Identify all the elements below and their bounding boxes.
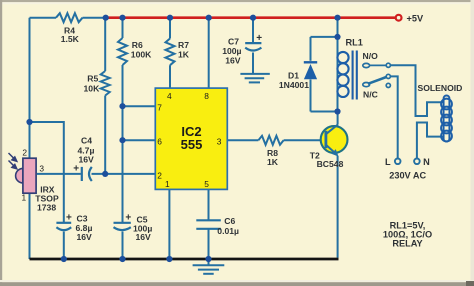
- junction R6 / pin 7: [119, 103, 125, 109]
- svg-text:1N4001: 1N4001: [279, 80, 309, 90]
- wire C7 to ground symbol: [252, 53, 254, 74]
- wire R8 to T2 base: [284, 139, 325, 141]
- junction ground rail at C5: [119, 256, 125, 262]
- junction on +5V rail at pin 8: [206, 15, 212, 21]
- resistor R6: [118, 38, 127, 65]
- resistor R4: [56, 13, 83, 22]
- node N/O contact point: [386, 63, 390, 67]
- wire relay pole to terminal L: [390, 76, 397, 158]
- svg-text:3: 3: [39, 163, 44, 173]
- svg-text:555: 555: [181, 137, 203, 152]
- svg-text:1.5K: 1.5K: [61, 34, 80, 44]
- svg-text:RL1: RL1: [346, 38, 363, 48]
- junction ground rail at C6: [205, 256, 211, 262]
- svg-text:L: L: [385, 157, 391, 167]
- wire rail to relay coil and collector node: [337, 18, 339, 112]
- wire N/O contact to solenoid top lead: [390, 65, 443, 116]
- wire junction to IC2 pin 7: [123, 105, 156, 107]
- svg-text:1: 1: [22, 192, 27, 202]
- wire rail to IC2 pin 8: [208, 18, 210, 88]
- wire C3 to ground rail: [63, 232, 65, 260]
- wire R6 bottom through pin7/pin6 junctions to C5: [122, 65, 124, 223]
- svg-text:+: +: [256, 33, 262, 44]
- capacitor C3: [56, 223, 71, 230]
- diode D1: [304, 64, 317, 79]
- transistor T2: [321, 126, 348, 153]
- wire rail to R5 top: [104, 18, 106, 71]
- svg-text:+5V: +5V: [407, 14, 424, 24]
- junction ground rail at C3: [61, 256, 67, 262]
- svg-text:4: 4: [167, 91, 172, 101]
- svg-text:2: 2: [157, 171, 162, 181]
- +5V red supply rail: [106, 16, 396, 19]
- svg-text:C7: C7: [228, 37, 239, 47]
- resistor R7: [166, 39, 175, 66]
- junction on +5V rail at C7: [250, 15, 256, 21]
- svg-text:+: +: [125, 213, 131, 224]
- IR input arrows: [9, 153, 17, 169]
- relay N/C fixed contact: [386, 83, 390, 87]
- svg-text:1738: 1738: [37, 202, 56, 212]
- svg-text:SOLENOID: SOLENOID: [418, 83, 463, 93]
- wire rail to C7: [252, 18, 254, 43]
- svg-text:1K: 1K: [178, 50, 190, 60]
- svg-text:C4: C4: [81, 135, 92, 145]
- wire sensor pin 3 to C4: [37, 173, 81, 175]
- svg-text:D1: D1: [288, 70, 299, 80]
- resistor R5: [101, 71, 110, 96]
- solenoid coil core: [444, 96, 450, 142]
- junction on +5V rail at R4/R5: [103, 15, 109, 21]
- wire D1 cathode vertical: [310, 37, 312, 61]
- svg-text:2: 2: [22, 148, 27, 158]
- svg-text:BC548: BC548: [317, 159, 344, 169]
- svg-text:16V: 16V: [77, 232, 93, 242]
- capacitor C6: [196, 220, 221, 229]
- wire sensor pin 1 to ground rail: [29, 193, 31, 259]
- svg-text:16V: 16V: [225, 56, 241, 66]
- timer IC2 555 body: [155, 88, 227, 189]
- ground below C6: [193, 265, 225, 274]
- svg-text:C3: C3: [77, 213, 88, 223]
- junction on +5V rail at R6: [119, 15, 125, 21]
- IR receiver IRX TSOP1738 body: [23, 158, 36, 193]
- wire N/O contact link: [370, 64, 387, 66]
- capacitor C7: [245, 43, 261, 50]
- junction sensor supply / C3: [26, 119, 32, 125]
- ground below C7: [240, 74, 269, 83]
- ground rail: [30, 258, 339, 261]
- diode D1 cathode bar: [304, 61, 317, 63]
- svg-text:RELAY: RELAY: [392, 239, 422, 249]
- resistor R8: [258, 136, 283, 145]
- +5V terminal: [396, 15, 402, 21]
- terminal L: [395, 159, 401, 165]
- wire junction to IC2 pin 6: [123, 139, 156, 141]
- wire solenoid bottom lead to terminal N: [417, 123, 443, 159]
- wire IC2 pin 5 to C6: [208, 189, 210, 220]
- relay RL1 coil: [337, 51, 356, 100]
- svg-text:5: 5: [204, 179, 209, 189]
- svg-text:1: 1: [165, 179, 170, 189]
- wire T2 emitter to ground rail: [337, 156, 339, 258]
- relay N/O fixed contact: [363, 63, 370, 67]
- svg-text:16V: 16V: [136, 232, 152, 242]
- wire IC2 pin 3 to R8: [227, 139, 258, 141]
- wire rail to R7 top: [169, 18, 171, 39]
- wire left vertical to sensor pin 2: [29, 18, 31, 159]
- junction on +5V rail at relay: [334, 15, 340, 21]
- junction relay / D1 cathode: [334, 34, 340, 40]
- junction R5 / pin 2: [102, 171, 108, 177]
- solenoid coil turns: [441, 99, 452, 142]
- wire R7 bottom to IC2 pin 4: [169, 65, 171, 88]
- junction on +5V rail at R7: [167, 15, 173, 21]
- wire C6 to ground symbol: [208, 229, 210, 265]
- relay armature lever: [368, 77, 386, 84]
- svg-text:R5: R5: [87, 74, 98, 84]
- IR receiver IRX TSOP1738 lens: [16, 168, 23, 183]
- wire D1 cathode branch: [311, 36, 338, 38]
- svg-text:230V AC: 230V AC: [389, 171, 426, 181]
- relay lever pivot: [363, 83, 370, 87]
- svg-text:N: N: [423, 157, 430, 167]
- wire D1 anode branch: [311, 111, 338, 113]
- svg-text:N/O: N/O: [363, 51, 379, 61]
- wire rail to R6 top: [122, 18, 124, 38]
- wire C4 to IC2 pin 2: [92, 173, 156, 175]
- svg-text:0.01µ: 0.01µ: [217, 226, 239, 236]
- svg-text:100K: 100K: [131, 50, 152, 60]
- capacitor C5: [114, 223, 131, 230]
- svg-text:8: 8: [204, 91, 209, 101]
- svg-text:N/C: N/C: [363, 90, 378, 100]
- junction R6 / pin 6: [119, 137, 125, 143]
- junction relay / D1 anode / collector: [334, 108, 340, 114]
- wire C5 to ground rail: [122, 232, 124, 260]
- svg-text:16V: 16V: [79, 155, 95, 165]
- wire node to T2 collector: [337, 112, 339, 125]
- wire top rail left blue segment: [30, 17, 57, 19]
- svg-text:10K: 10K: [84, 83, 101, 93]
- svg-text:6: 6: [157, 137, 162, 147]
- svg-text:1K: 1K: [267, 157, 279, 167]
- wire C3 branch from node A: [30, 122, 64, 223]
- terminal N: [414, 159, 420, 165]
- wire R4 to +5V node: [83, 17, 106, 19]
- svg-text:C6: C6: [224, 216, 235, 226]
- node relay pole contact point: [386, 74, 390, 78]
- svg-text:+: +: [73, 163, 79, 174]
- wire R5 bottom to pin 2 node: [104, 96, 106, 174]
- svg-text:3: 3: [217, 137, 222, 147]
- capacitor C4: [82, 167, 92, 181]
- wire D1 anode vertical: [310, 80, 312, 112]
- wire IC2 pin 1 to ground rail: [168, 189, 170, 259]
- junction ground rail at pin 1: [166, 256, 172, 262]
- svg-text:+: +: [66, 213, 72, 224]
- svg-text:7: 7: [157, 103, 162, 113]
